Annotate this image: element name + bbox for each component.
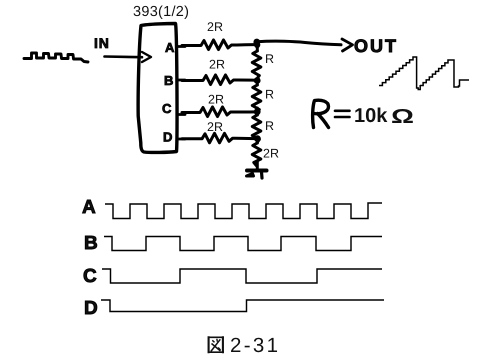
svg-text:IN: IN xyxy=(94,35,110,51)
svg-text:R: R xyxy=(265,88,274,102)
svg-text:A: A xyxy=(82,197,96,218)
svg-text:D: D xyxy=(84,298,98,319)
svg-text:C: C xyxy=(162,101,172,116)
svg-text:R: R xyxy=(265,119,274,133)
svg-text:2-31: 2-31 xyxy=(230,334,278,357)
svg-text:Ω: Ω xyxy=(391,106,414,128)
svg-text:2R: 2R xyxy=(208,93,224,107)
svg-text:B: B xyxy=(84,233,98,254)
svg-text:393(1/2): 393(1/2) xyxy=(133,4,189,20)
svg-text:B: B xyxy=(164,73,173,88)
svg-text:R: R xyxy=(265,52,274,66)
svg-text:2R: 2R xyxy=(209,58,225,72)
svg-text:2R: 2R xyxy=(207,20,223,34)
svg-text:C: C xyxy=(83,266,97,287)
svg-text:10k: 10k xyxy=(354,105,388,127)
svg-text:OUT: OUT xyxy=(354,36,398,56)
svg-text:A: A xyxy=(165,40,175,55)
svg-text:2R: 2R xyxy=(263,147,279,161)
svg-text:D: D xyxy=(163,130,172,145)
